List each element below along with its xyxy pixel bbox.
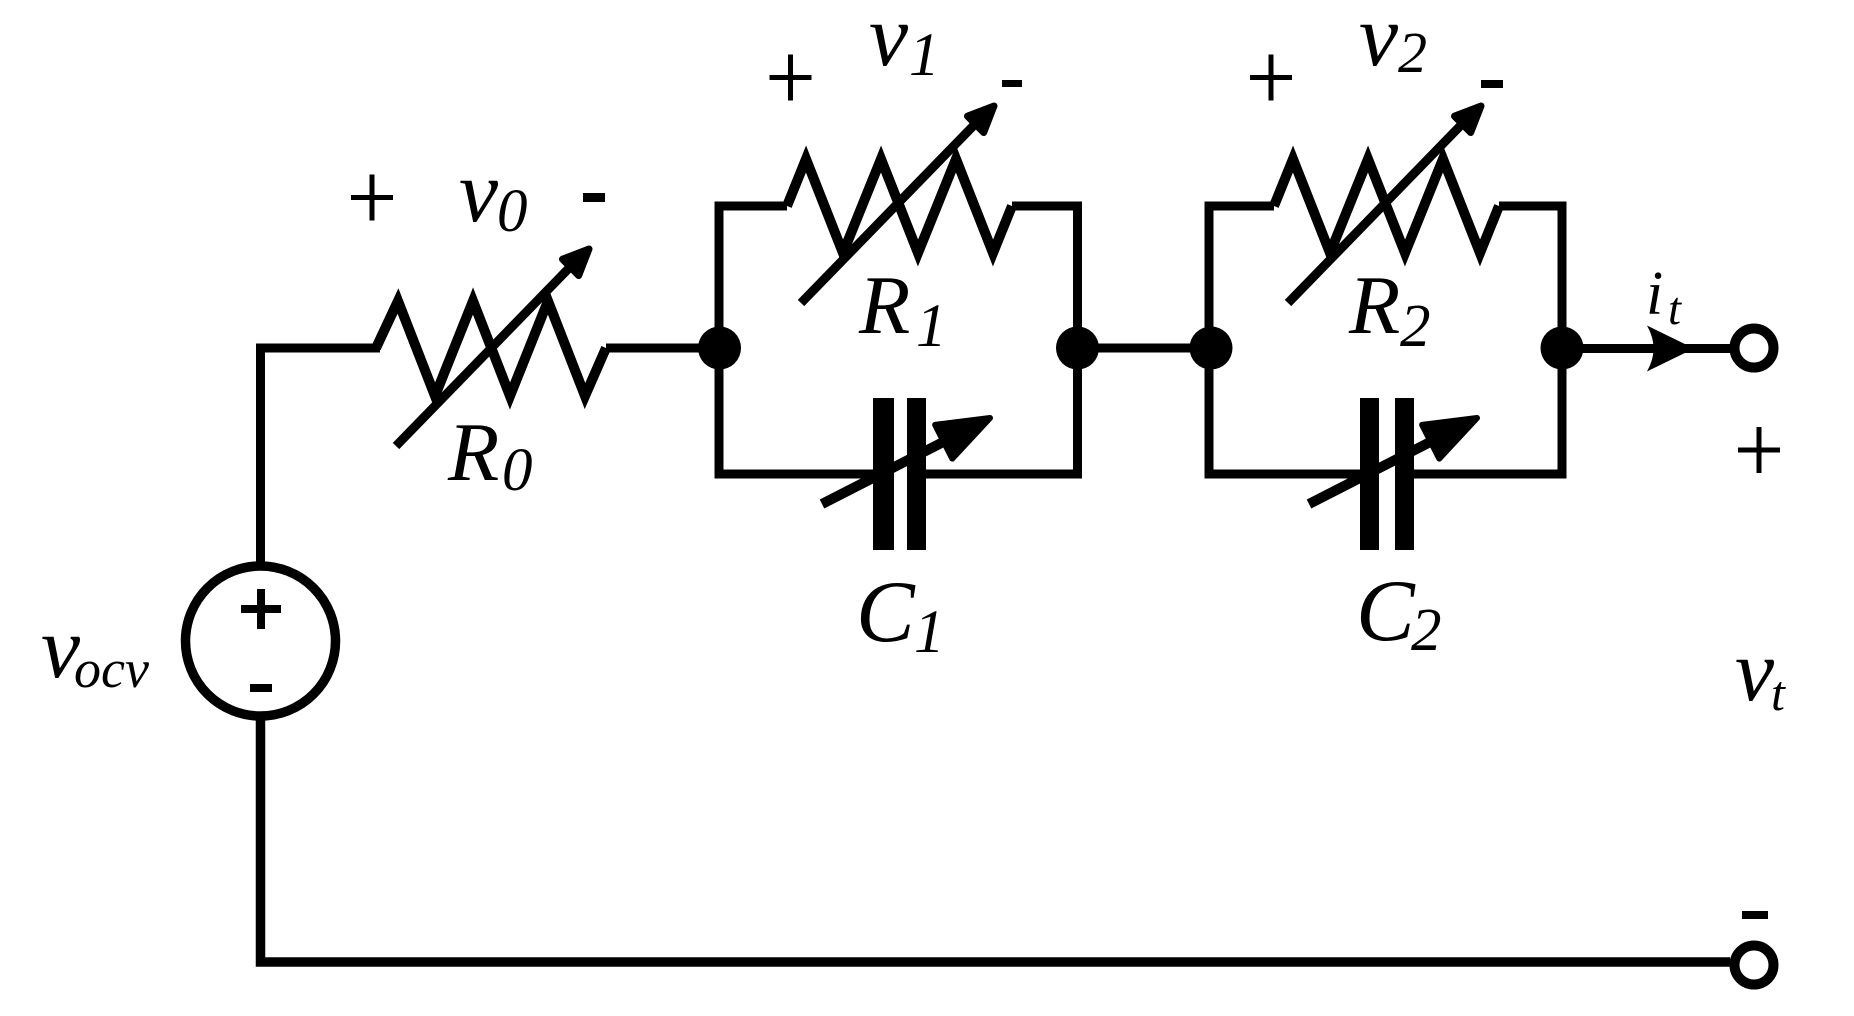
label + (v_t) xyxy=(1738,427,1780,473)
resistor R1 (variable) xyxy=(787,159,1012,253)
arrow through C2 xyxy=(1309,439,1437,505)
svg-text:i: i xyxy=(1646,260,1663,328)
arrow through R0 xyxy=(396,264,573,446)
svg-text:2: 2 xyxy=(1400,293,1431,360)
svg-text:v: v xyxy=(869,0,909,85)
label - (v_t) xyxy=(1742,911,1768,919)
svg-text:ocv: ocv xyxy=(74,639,149,699)
wire node B to node C xyxy=(1078,344,1212,353)
label + (v0) xyxy=(351,175,393,221)
label - (v0) xyxy=(583,193,605,202)
node A xyxy=(698,327,741,370)
svg-text:2: 2 xyxy=(1398,20,1427,85)
arrow through C1 xyxy=(822,439,950,505)
terminal - (bottom right) xyxy=(1735,946,1774,985)
svg-text:R: R xyxy=(447,406,499,499)
capacitor C1 (variable) plates xyxy=(873,398,894,550)
wire bottom-left + bottom rail xyxy=(261,716,1731,962)
svg-text:t: t xyxy=(1771,665,1786,721)
R1 C1 box left half xyxy=(719,206,873,474)
node C xyxy=(1190,327,1233,370)
node B xyxy=(1056,327,1099,370)
wire top-left: source top up to R0 xyxy=(261,348,381,566)
svg-text:0: 0 xyxy=(497,178,528,245)
wire node D to terminal xyxy=(1562,344,1730,353)
svg-text:v: v xyxy=(1359,0,1399,85)
label + (v2) xyxy=(1250,55,1292,101)
svg-text:C: C xyxy=(1356,563,1416,660)
plus sign inside source xyxy=(241,589,281,629)
resistor R0 (variable) xyxy=(376,301,606,396)
resistor R2 (variable) xyxy=(1274,159,1499,253)
arrow through R2 xyxy=(1288,121,1465,303)
label - (v2) xyxy=(1481,80,1503,88)
svg-text:1: 1 xyxy=(916,293,947,360)
svg-text:R: R xyxy=(1348,259,1400,352)
R2 C2 box left half xyxy=(1209,206,1360,474)
current arrowhead i_t xyxy=(1647,326,1694,372)
minus sign inside source xyxy=(250,684,272,692)
svg-text:C: C xyxy=(856,564,916,661)
svg-text:1: 1 xyxy=(909,22,940,89)
R2 C2 box right half xyxy=(1414,206,1562,474)
voltage source v_ocv xyxy=(186,566,336,716)
svg-text:2: 2 xyxy=(1411,597,1442,664)
svg-text:0: 0 xyxy=(502,437,533,504)
node D xyxy=(1541,327,1584,370)
svg-text:R: R xyxy=(858,259,910,352)
svg-text:v: v xyxy=(1735,623,1775,720)
svg-text:1: 1 xyxy=(914,599,945,666)
svg-text:v: v xyxy=(459,144,499,241)
label - (v1) xyxy=(1002,80,1022,87)
svg-text:t: t xyxy=(1668,283,1682,335)
capacitor C2 (variable) plates xyxy=(1360,398,1379,550)
R1 C1 box right half xyxy=(926,206,1078,474)
terminal + (top right) xyxy=(1735,329,1774,368)
wire R0 to node A xyxy=(606,344,719,353)
label + (v1) xyxy=(770,55,812,101)
arrow through R1 xyxy=(801,121,978,303)
